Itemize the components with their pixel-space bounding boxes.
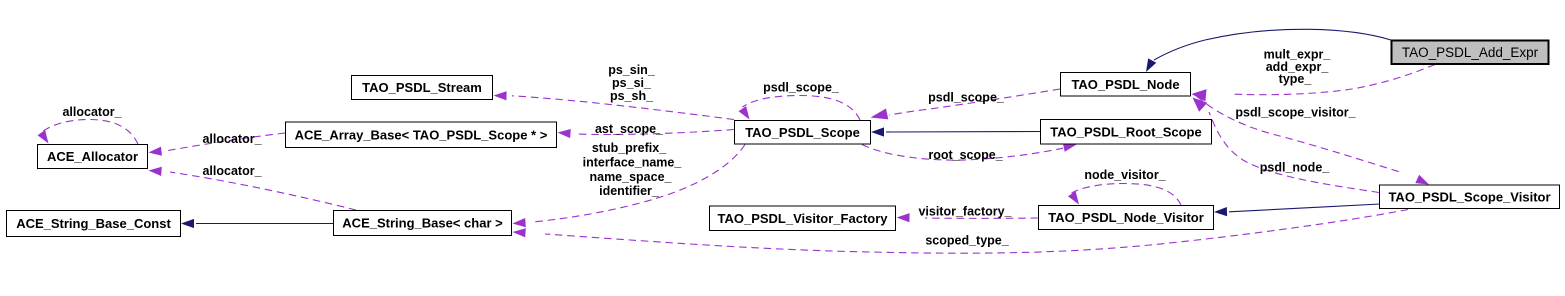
edge label ps_sin_: [608, 63, 656, 77]
edge label identifier_: [599, 184, 660, 198]
edge root_scope_ TAO_PSDL_Scope to TAO_PSDL_Root_Scope: [862, 143, 1077, 160]
svg-text:visitor_factory_: visitor_factory_: [918, 205, 1012, 219]
edge label name_space_: [589, 170, 672, 184]
svg-text:scoped_type_: scoped_type_: [925, 234, 1009, 248]
edge allocator_ ACE_String_Base to ACE_Allocator: [149, 167, 357, 210]
class box ACE_Allocator: [38, 145, 148, 169]
svg-text:psdl_scope_: psdl_scope_: [763, 81, 840, 95]
edge psdl_node_ TAO_PSDL_Scope_Visitor to TAO_PSDL_Node: [1193, 98, 1380, 193]
svg-text:TAO_PSDL_Node: TAO_PSDL_Node: [1071, 77, 1179, 92]
svg-text:interface_name_: interface_name_: [583, 156, 683, 170]
inheritance TAO_PSDL_Root_Scope to TAO_PSDL_Scope: [871, 127, 1040, 136]
svg-text:allocator_: allocator_: [202, 132, 262, 146]
svg-text:TAO_PSDL_Scope: TAO_PSDL_Scope: [745, 125, 860, 140]
class box TAO_PSDL_Stream: [352, 76, 493, 100]
svg-text:TAO_PSDL_Visitor_Factory: TAO_PSDL_Visitor_Factory: [717, 211, 888, 226]
class box TAO_PSDL_Node_Visitor: [1039, 206, 1214, 230]
class box TAO_PSDL_Root_Scope: [1041, 120, 1212, 145]
inheritance ACE_String_Base to ACE_String_Base_Const: [181, 219, 333, 228]
class box TAO_PSDL_Scope: [735, 121, 871, 145]
svg-text:allocator_: allocator_: [202, 164, 262, 178]
edge label ast_scope_: [595, 122, 664, 136]
edge label type_: [1279, 72, 1313, 86]
class box ACE_Array_Base< TAO_PSDL_Scope * >: [286, 122, 557, 148]
edge label psdl_node_: [1260, 161, 1331, 175]
svg-text:ACE_String_Base_Const: ACE_String_Base_Const: [16, 216, 171, 231]
edge label psdl_scope_: [763, 81, 840, 95]
edge label ps_si_: [612, 76, 652, 90]
svg-text:ast_scope_: ast_scope_: [595, 122, 664, 136]
edge label psdl_scope_visitor_: [1235, 106, 1356, 120]
inheritance TAO_PSDL_Scope_Visitor to TAO_PSDL_Node_Visitor: [1214, 204, 1380, 216]
svg-text:ps_sin_: ps_sin_: [608, 63, 656, 77]
svg-text:TAO_PSDL_Node_Visitor: TAO_PSDL_Node_Visitor: [1048, 210, 1204, 225]
edge psdl_scope_ self-loop on TAO_PSDL_Scope: [739, 96, 861, 121]
edge label stub_prefix_: [592, 141, 667, 155]
edge label interface_name_: [583, 156, 683, 170]
svg-text:ACE_String_Base< char >: ACE_String_Base< char >: [342, 216, 503, 231]
edge label allocator_: [62, 105, 122, 119]
svg-text:node_visitor_: node_visitor_: [1084, 168, 1166, 182]
edge allocator_ self-loop on ACE_Allocator: [38, 120, 139, 145]
edge label allocator_: [202, 132, 262, 146]
svg-text:psdl_scope_: psdl_scope_: [928, 91, 1005, 105]
edge node_visitor_ self-loop on TAO_PSDL_Node_Visitor: [1068, 184, 1181, 206]
svg-text:allocator_: allocator_: [62, 105, 122, 119]
edge ps_sin_ ps_si_ ps_sh_ TAO_PSDL_Scope to TAO_PSDL_Stream: [494, 91, 735, 119]
class box TAO_PSDL_Add_Expr: [1392, 41, 1549, 65]
svg-text:TAO_PSDL_Scope_Visitor: TAO_PSDL_Scope_Visitor: [1388, 189, 1550, 204]
edge psdl_scope_visitor_ TAO_PSDL_Node to TAO_PSDL_Scope_Visitor: [1197, 97, 1429, 185]
svg-text:ACE_Allocator: ACE_Allocator: [47, 149, 138, 164]
edge label mult_expr_: [1264, 48, 1332, 62]
svg-text:TAO_PSDL_Root_Scope: TAO_PSDL_Root_Scope: [1050, 124, 1201, 139]
edge mult_expr_ add_expr_ type_ TAO_PSDL_Add_Expr to TAO_PSDL_Node: [1192, 65, 1436, 102]
edge visitor_factory_ TAO_PSDL_Node_Visitor to TAO_PSDL_Visitor_Factory: [897, 213, 1039, 222]
edge label visitor_factory_: [918, 205, 1012, 219]
svg-text:psdl_scope_visitor_: psdl_scope_visitor_: [1235, 106, 1356, 120]
edge ast_scope_ TAO_PSDL_Scope to ACE_Array_Base: [558, 129, 735, 138]
edge label scoped_type_: [925, 234, 1009, 248]
inheritance TAO_PSDL_Add_Expr to TAO_PSDL_Node: [1146, 29, 1391, 72]
edge label root_scope_: [928, 148, 1003, 162]
svg-text:psdl_node_: psdl_node_: [1260, 161, 1331, 175]
svg-text:type_: type_: [1279, 72, 1313, 86]
edge label add_expr_: [1266, 60, 1330, 74]
edge allocator_ ACE_Array_Base to ACE_Allocator: [149, 133, 286, 156]
svg-text:stub_prefix_: stub_prefix_: [592, 141, 667, 155]
edge label node_visitor_: [1084, 168, 1166, 182]
svg-text:root_scope_: root_scope_: [928, 148, 1003, 162]
edge label psdl_scope_: [928, 91, 1005, 105]
edge scoped_type_ TAO_PSDL_Scope_Visitor to ACE_String_Base: [513, 210, 1409, 254]
svg-text:identifier_: identifier_: [599, 184, 660, 198]
class box ACE_String_Base< char >: [334, 211, 512, 236]
svg-text:ps_si_: ps_si_: [612, 76, 652, 90]
class box TAO_PSDL_Visitor_Factory: [710, 206, 896, 231]
svg-text:ACE_Array_Base< TAO_PSDL_Scope: ACE_Array_Base< TAO_PSDL_Scope * >: [295, 127, 548, 142]
edge psdl_scope_ TAO_PSDL_Node to TAO_PSDL_Scope: [871, 89, 1061, 119]
class box TAO_PSDL_Scope_Visitor: [1380, 185, 1560, 209]
svg-text:TAO_PSDL_Stream: TAO_PSDL_Stream: [362, 80, 482, 95]
class box ACE_String_Base_Const: [7, 211, 181, 237]
edge stub_prefix_ interface_name_ name_space_ identifier_ TAO_PSDL_Scope to ACE_String_Base: [513, 145, 746, 228]
svg-text:TAO_PSDL_Add_Expr: TAO_PSDL_Add_Expr: [1402, 45, 1539, 60]
class box TAO_PSDL_Node: [1061, 73, 1191, 97]
edge label ps_sh_: [610, 89, 654, 103]
svg-text:name_space_: name_space_: [589, 170, 672, 184]
svg-text:ps_sh_: ps_sh_: [610, 89, 654, 103]
edge label allocator_: [202, 164, 262, 178]
